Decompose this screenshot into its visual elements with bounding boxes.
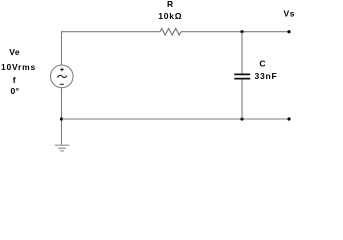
svg-text:33nF: 33nF <box>254 71 277 81</box>
svg-text:10Vrms: 10Vrms <box>1 62 36 72</box>
wire bottom rail from node B to bottom-right terminal <box>62 118 290 120</box>
ground <box>55 145 70 151</box>
svg-text:Ve: Ve <box>9 47 20 57</box>
wire from node A to Vs terminal <box>242 31 289 33</box>
node C-bottom (capacitor bottom junction) <box>240 117 243 120</box>
node A (capacitor top junction) <box>240 30 243 33</box>
svg-text:0°: 0° <box>11 86 20 96</box>
capacitor C1 (top lead, plates, bottom lead) <box>234 32 250 119</box>
resistor R1 zigzag <box>160 28 181 35</box>
svg-text:f: f <box>13 75 16 85</box>
svg-text:C: C <box>259 59 265 69</box>
terminal Vs dot <box>287 30 290 33</box>
wire from resistor to node A <box>181 31 242 33</box>
svg-text:R: R <box>167 0 173 9</box>
terminal bottom-right dot <box>287 117 290 120</box>
svg-text:Vs: Vs <box>283 8 295 18</box>
voltage source Ve (AC source symbol) <box>51 65 74 88</box>
node B (ground junction) <box>60 117 63 120</box>
wire from source bottom to ground <box>61 88 63 145</box>
svg-text:10kΩ: 10kΩ <box>158 11 182 21</box>
wire from source top to resistor (top-left corner) <box>62 32 161 65</box>
